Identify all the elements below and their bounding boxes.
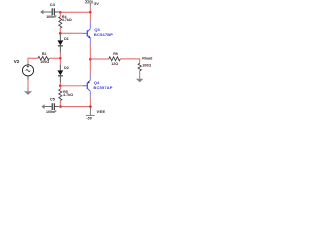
node F: emitters / R9 output junction: [89, 58, 92, 61]
node G: Q4 collector / VEE junction: [89, 105, 92, 108]
svg-text:VCC: VCC: [85, 0, 93, 3]
resistor Rload: [138, 57, 152, 75]
svg-text:5V: 5V: [94, 2, 99, 6]
svg-text:C5: C5: [50, 97, 56, 102]
source V2: [14, 59, 34, 80]
svg-text:R9: R9: [113, 52, 118, 56]
wire node D to VEE rail: [61, 106, 91, 108]
svg-text:D2: D2: [64, 66, 69, 70]
port arrow P1 (input to C4): [40, 10, 51, 15]
svg-text:D1: D1: [64, 37, 69, 41]
svg-text:12Ω: 12Ω: [111, 62, 118, 66]
resistor R9: [109, 52, 121, 66]
capacitor C5: [45, 97, 59, 114]
wire VCC to node A rail: [89, 7, 91, 12]
node E: VCC / Q3 collector junction: [89, 11, 92, 14]
VEE power symbol: [86, 107, 105, 120]
wire node F to Q4 emitter: [89, 59, 91, 74]
resistor R2: [38, 52, 49, 64]
resistor R5: [59, 87, 73, 107]
svg-text:-5V: -5V: [86, 117, 92, 120]
resistor R4: [59, 13, 72, 32]
svg-text:VEE: VEE: [97, 109, 106, 114]
transistor Q4 BC557AP (PNP): [82, 75, 112, 97]
wire node B to Q3 base: [60, 32, 82, 34]
svg-text:R2: R2: [42, 52, 47, 56]
node C: D2 / R5 / Q4 base junction: [59, 85, 62, 88]
svg-text:100Ω: 100Ω: [142, 63, 151, 67]
node B: R4 / D1 / Q3 base junction: [59, 32, 62, 35]
svg-text:Rload: Rload: [142, 57, 152, 61]
diode D1: [57, 34, 68, 58]
svg-text:V2: V2: [14, 59, 20, 64]
svg-text:4.7kΩ: 4.7kΩ: [62, 18, 72, 22]
svg-text:BC557AP: BC557AP: [93, 85, 112, 90]
diode D2: [57, 59, 68, 86]
wire V2 to ground: [27, 80, 29, 88]
ground (below Rload): [136, 75, 143, 82]
svg-text:BC547BP: BC547BP: [94, 32, 113, 37]
svg-text:C4: C4: [50, 2, 56, 7]
svg-text:100Ω: 100Ω: [40, 60, 49, 64]
wire R2 to V2: [28, 58, 38, 64]
wire Q4 collector to node D rail: [89, 97, 91, 107]
wire node E to Q3 collector: [89, 12, 91, 21]
node D: R5 / C5 / VEE rail junction: [59, 105, 62, 108]
port arrow P2 (input to C5): [41, 104, 44, 109]
svg-text:4.7kΩ: 4.7kΩ: [63, 93, 73, 97]
wire node A to VCC rail: [60, 11, 90, 13]
wire node C to Q4 base: [60, 85, 82, 87]
node A: C4 / R4 / VCC rail junction: [59, 11, 62, 14]
wire node F to R9: [90, 58, 109, 60]
wire Q3 emitter to node F: [89, 45, 91, 60]
transistor Q3 BC547BP (NPN): [82, 21, 113, 44]
capacitor C4: [46, 2, 59, 19]
svg-text:100nF: 100nF: [46, 110, 57, 114]
svg-text:100nF: 100nF: [46, 15, 57, 19]
wire node M to R2: [49, 57, 60, 59]
VCC power symbol: [85, 0, 100, 7]
ground (below V2): [24, 88, 32, 95]
node M: D1 / D2 / R2 junction: [59, 57, 62, 60]
wire R9 to Rload: [120, 59, 139, 63]
